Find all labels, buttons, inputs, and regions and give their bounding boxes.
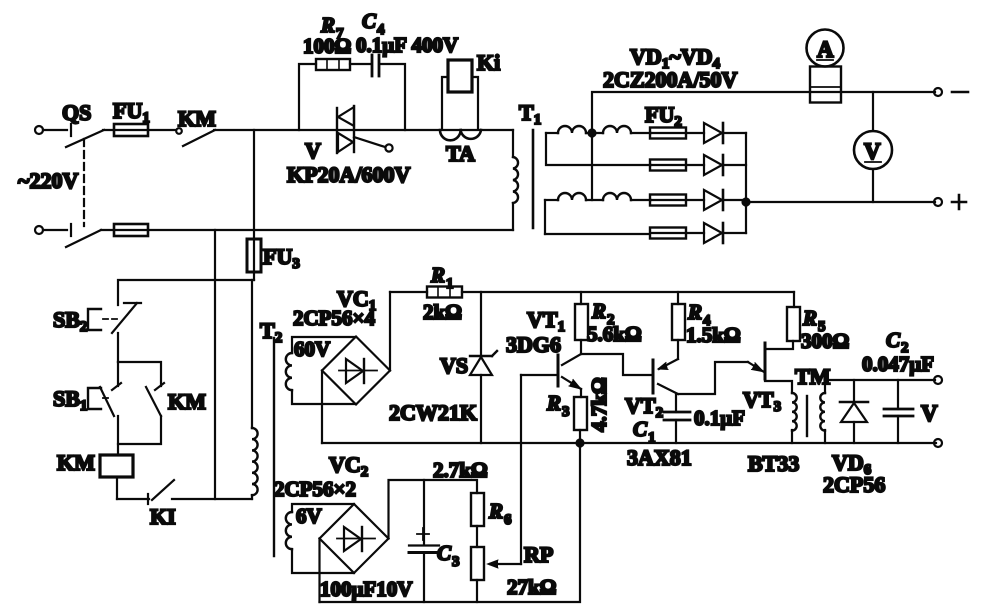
svg-text:2CW21K: 2CW21K — [389, 400, 477, 425]
wire branch2 fuse to diode — [686, 164, 704, 166]
capacitor C3 electrolytic — [409, 480, 439, 602]
svg-text:T2: T2 — [260, 318, 282, 346]
transistor VT3 UJT — [748, 343, 792, 393]
label T1 — [519, 100, 541, 128]
svg-text:60V: 60V — [294, 337, 330, 361]
wire VT1 collector to VT2 base — [581, 354, 653, 375]
svg-text:SB2: SB2 — [53, 307, 87, 335]
label C2 — [886, 328, 909, 356]
svg-text:4.7kΩ: 4.7kΩ — [587, 377, 611, 432]
svg-text:V: V — [305, 138, 321, 163]
label R2 — [591, 299, 615, 328]
svg-text:6V: 6V — [296, 504, 322, 528]
label VC2 — [329, 452, 368, 480]
svg-text:Ki: Ki — [477, 50, 500, 75]
svg-text:C: C — [886, 328, 901, 352]
svg-text:BT33: BT33 — [748, 451, 799, 476]
pushbutton SB1 — [88, 362, 121, 455]
svg-text:2kΩ: 2kΩ — [423, 300, 462, 324]
label 100uF10V — [320, 577, 412, 601]
contact KM main — [176, 128, 215, 146]
svg-text:VT1: VT1 — [527, 307, 565, 335]
label KI contact — [150, 504, 176, 529]
svg-text:KI: KI — [150, 504, 176, 529]
label TM — [795, 364, 831, 389]
capacitor C4 — [372, 55, 405, 130]
resistor R1 — [390, 287, 462, 298]
svg-text:C: C — [362, 9, 377, 33]
label 3AX81 — [627, 445, 692, 470]
svg-text:TA: TA — [446, 141, 475, 166]
node cathode bus junction — [743, 199, 936, 206]
fuse FU2 branch 2 — [650, 160, 686, 171]
node minus output terminal — [934, 88, 968, 96]
wire VC2 plus to R6 — [389, 480, 478, 539]
svg-text:C: C — [633, 417, 648, 441]
node center tap junction — [589, 130, 596, 137]
potentiometer RP — [471, 547, 484, 602]
svg-text:FU2: FU2 — [645, 102, 682, 130]
label RP — [524, 542, 553, 567]
label FU3 — [263, 244, 300, 272]
pushbutton SB2 — [88, 303, 141, 362]
svg-text:~220V: ~220V — [18, 168, 78, 193]
relay coil KM — [100, 455, 133, 499]
svg-text:RP: RP — [524, 542, 553, 567]
current transformer TA — [440, 130, 481, 140]
label KP20A/600V — [287, 162, 411, 187]
svg-text:1.5kΩ: 1.5kΩ — [686, 323, 741, 347]
svg-text:1: 1 — [648, 430, 656, 446]
label R4 — [687, 300, 711, 329]
label ~220V — [18, 168, 78, 193]
resistor R7 — [299, 59, 371, 130]
svg-text:T1: T1 — [519, 100, 541, 128]
label FU1 — [113, 98, 150, 126]
node R3 rail junction — [577, 440, 584, 447]
label TA — [446, 141, 475, 166]
diode VD1 — [704, 123, 746, 143]
pulse transformer TM core — [806, 396, 808, 436]
label 0.047uF — [862, 352, 934, 376]
wire center tap to minus rail — [592, 92, 935, 200]
svg-text:KP20A/600V: KP20A/600V — [287, 162, 411, 187]
svg-text:3: 3 — [452, 554, 460, 570]
label 2.7kohm — [433, 458, 488, 482]
svg-text:KM: KM — [57, 450, 95, 475]
switch QS link dashed — [83, 139, 85, 226]
svg-text:0.047μF: 0.047μF — [862, 352, 934, 376]
resistor R2 — [575, 292, 588, 354]
label C4 — [362, 9, 385, 38]
svg-text:100Ω: 100Ω — [303, 34, 351, 58]
label 27kohm — [507, 575, 557, 599]
label 3DG6 — [506, 332, 561, 357]
fuse FU3 — [247, 130, 261, 280]
svg-text:R: R — [430, 263, 445, 287]
transformer T2 core — [273, 338, 275, 556]
wire positive rail R1 to R5 — [462, 291, 794, 293]
label KM — [178, 106, 216, 131]
svg-text:C: C — [437, 541, 452, 565]
fuse FU1 pole2 — [101, 224, 513, 236]
label R7 — [320, 13, 344, 42]
label VT1 — [527, 307, 565, 335]
wire auxiliary negative bus — [320, 443, 581, 602]
label VC1 — [337, 286, 376, 314]
label FU2 — [645, 102, 682, 130]
wire L2 lead — [43, 229, 67, 231]
transistor VT2 — [653, 359, 678, 394]
pulse transformer TM secondary — [820, 380, 935, 443]
wire VC1 plus up — [389, 292, 391, 371]
label 2CW21K — [389, 400, 477, 425]
resistor R6 — [471, 493, 484, 547]
diode VD2 — [704, 155, 746, 175]
label T2 — [260, 318, 282, 346]
svg-text:FU1: FU1 — [113, 98, 150, 126]
svg-text:VS: VS — [440, 353, 468, 378]
resistor R5 — [765, 292, 800, 349]
label 60V — [294, 337, 330, 361]
label 0.1uF — [694, 406, 745, 430]
label 2CZ200A/50V — [603, 67, 738, 92]
transformer T2 primary — [252, 280, 258, 499]
capacitor C2 — [884, 380, 913, 443]
diode VD3 — [704, 190, 746, 210]
wire cathode bus — [745, 133, 747, 233]
wire VT2 collector to VT3 emitter — [678, 362, 748, 394]
diode VD4 — [704, 223, 746, 243]
label QS — [62, 100, 91, 125]
label 2CP56x2 — [274, 477, 356, 501]
label R5 — [802, 306, 826, 335]
transformer T1 secondary winding 2 — [545, 193, 651, 234]
svg-text:V: V — [864, 139, 881, 164]
wire branch4 fuse to diode — [686, 232, 704, 234]
label 2kohm — [423, 300, 462, 324]
node plus output terminal — [934, 195, 966, 209]
label R6 — [488, 499, 512, 528]
label 1.5kohm — [686, 323, 741, 347]
zener VS — [470, 292, 497, 443]
label VT3 — [743, 387, 781, 415]
label R1 — [430, 263, 454, 292]
diode VD6 — [840, 380, 868, 443]
potentiometer RP wiper — [488, 375, 522, 568]
contact KI overcurrent — [117, 480, 252, 504]
wire VC2 minus down — [318, 539, 320, 603]
svg-text:100μF10V: 100μF10V — [320, 577, 412, 601]
switch QS pole 1 — [66, 124, 104, 147]
transistor VT1 — [521, 354, 581, 389]
svg-text:3: 3 — [562, 404, 570, 420]
transformer T2 winding 60V — [286, 337, 356, 404]
label KM auxiliary — [168, 389, 206, 414]
label C1 — [633, 417, 656, 446]
svg-text:2.7kΩ: 2.7kΩ — [433, 458, 488, 482]
svg-text:FU3: FU3 — [263, 244, 300, 272]
wire control top — [118, 280, 254, 305]
node gate output terminal top — [934, 376, 942, 384]
wire top rail QS to FU1 — [103, 129, 176, 131]
relay coil KI — [442, 60, 478, 129]
fuse FU1 pole1 — [114, 124, 148, 136]
wire branch1 fuse to diode — [686, 132, 704, 134]
label SB2 — [53, 307, 87, 335]
label V output — [921, 401, 938, 426]
label 0.1uF 400V — [356, 33, 458, 57]
svg-text:0.1μF: 0.1μF — [694, 406, 745, 430]
label C3 — [437, 541, 460, 570]
svg-text:R: R — [488, 499, 503, 523]
transformer T2 winding 6V — [286, 504, 354, 573]
svg-text:300Ω: 300Ω — [801, 329, 849, 353]
ammeter A — [807, 30, 844, 103]
label 300ohm — [801, 329, 849, 353]
fuse FU2 branch 1 — [650, 128, 686, 139]
label VS — [440, 353, 468, 378]
svg-text:R: R — [802, 306, 817, 330]
svg-text:6: 6 — [504, 512, 512, 528]
switch QS pole 2 — [66, 224, 101, 247]
svg-text:R: R — [687, 300, 702, 324]
node L1 input terminal — [35, 126, 43, 134]
svg-text:3DG6: 3DG6 — [506, 332, 561, 357]
svg-text:5.6kΩ: 5.6kΩ — [587, 322, 642, 346]
label 6V — [296, 504, 322, 528]
svg-text:SB1: SB1 — [53, 386, 87, 414]
wire L1 lead — [43, 129, 67, 131]
svg-text:V: V — [921, 401, 938, 426]
label 100ohm — [303, 34, 351, 58]
contact KM auxiliary — [118, 383, 164, 444]
voltmeter V — [854, 92, 892, 202]
rectifier VC1 — [322, 337, 390, 405]
svg-text:3AX81: 3AX81 — [627, 445, 692, 470]
svg-text:R: R — [546, 391, 561, 415]
svg-text:2CP56×2: 2CP56×2 — [274, 477, 356, 501]
svg-text:VC2: VC2 — [329, 452, 368, 480]
wire negative rail — [322, 442, 936, 444]
label 5.6kohm — [587, 322, 642, 346]
rectifier VC2 — [320, 504, 389, 573]
svg-text:VT3: VT3 — [743, 387, 781, 415]
svg-text:A: A — [817, 37, 834, 62]
wire SB1 KM branch top — [118, 362, 161, 386]
resistor R3 — [574, 389, 587, 443]
label 4.7kohm — [587, 377, 611, 432]
label VT2 — [625, 393, 663, 421]
label KM coil — [57, 450, 95, 475]
svg-text:1: 1 — [446, 276, 454, 292]
wire lower rail to control bottom — [214, 230, 216, 499]
fuse FU2 branch 3 — [650, 195, 686, 206]
resistor R4 — [672, 292, 685, 359]
svg-text:2CZ200A/50V: 2CZ200A/50V — [603, 67, 738, 92]
svg-text:QS: QS — [62, 100, 91, 125]
capacitor C1 — [664, 394, 690, 443]
svg-text:27kΩ: 27kΩ — [507, 575, 557, 599]
transformer T1 core — [532, 130, 535, 228]
label VD1~VD4 — [630, 44, 721, 72]
svg-text:KM: KM — [168, 389, 206, 414]
label VD6 — [832, 450, 872, 478]
wire branch3 fuse to diode — [686, 199, 704, 201]
label 2CP56 — [823, 472, 885, 497]
label SB1 — [53, 386, 87, 414]
transformer T1 primary — [513, 130, 518, 230]
wire top rail KM to T1 — [214, 129, 513, 131]
svg-text:2CP56: 2CP56 — [823, 472, 885, 497]
thyristor V (triac) — [337, 106, 393, 153]
label BT33 — [748, 451, 799, 476]
label R3 — [546, 391, 570, 420]
node L2 input terminal — [35, 226, 43, 234]
pulse transformer TM primary — [792, 393, 797, 443]
transformer T1 secondary winding 1 — [546, 126, 651, 165]
label V thyristor — [305, 138, 321, 163]
svg-text:R: R — [591, 299, 606, 323]
wire VC1 minus to rail — [321, 371, 323, 444]
svg-text:KM: KM — [178, 106, 216, 131]
node gate output terminal bottom — [934, 439, 942, 447]
label 2CP56x4 — [293, 306, 375, 330]
svg-text:0.1μF 400V: 0.1μF 400V — [356, 33, 458, 57]
svg-text:2CP56×4: 2CP56×4 — [293, 306, 375, 330]
fuse FU2 branch 4 — [650, 228, 686, 239]
label KI — [477, 50, 500, 75]
